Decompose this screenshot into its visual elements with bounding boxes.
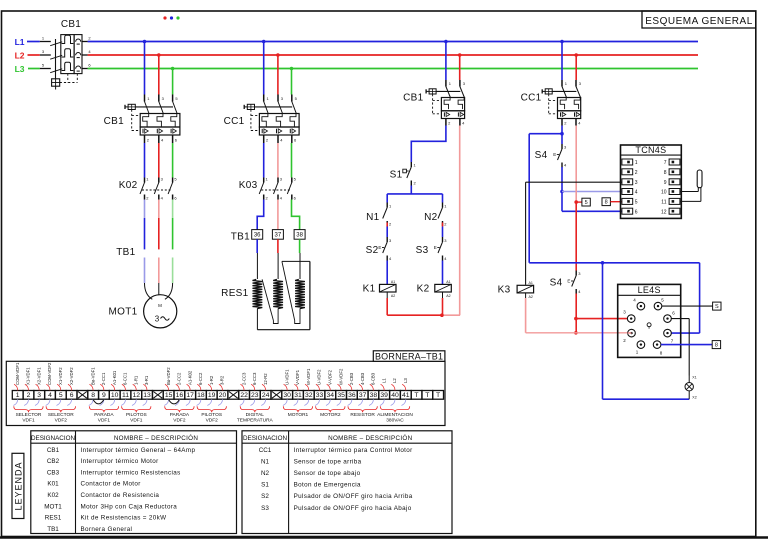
svg-text:SELECTOR: SELECTOR [48,412,74,418]
svg-text:39: 39 [380,392,388,399]
svg-text:8: 8 [664,170,667,176]
svg-text:L1: L1 [15,37,25,47]
svg-text:12: 12 [133,392,141,399]
svg-text:K03: K03 [239,180,258,191]
svg-text:A2: A2 [446,294,450,298]
svg-text:Pulsador de ON/OFF giro hacia: Pulsador de ON/OFF giro hacia Abajo [294,505,412,512]
svg-text:VDF1: VDF1 [22,417,35,423]
svg-text:M: M [158,303,162,308]
svg-text:30: 30 [283,392,291,399]
svg-text:X1-VDF2: X1-VDF2 [58,367,63,385]
svg-text:2: 2 [635,170,638,176]
svg-text:24: 24 [262,392,270,399]
svg-text:CB1: CB1 [47,447,60,454]
svg-text:E: E [567,279,570,284]
svg-text:3-R1: 3-R1 [144,375,149,385]
svg-text:8: 8 [91,392,95,399]
svg-text:10: 10 [111,392,119,399]
svg-text:10: 10 [661,190,667,196]
svg-text:U-VDF1: U-VDF1 [284,369,289,385]
svg-text:Contactor de Motor: Contactor de Motor [81,481,141,488]
svg-text:K02: K02 [47,492,59,499]
svg-text:TB1: TB1 [47,526,59,533]
svg-text:2-CC2: 2-CC2 [177,372,182,385]
svg-text:K2: K2 [417,283,430,294]
svg-text:L1: L1 [381,378,386,383]
svg-text:L3: L3 [403,378,408,383]
svg-text:L3: L3 [15,64,25,74]
svg-text:Contactor de Resistencia: Contactor de Resistencia [81,492,160,499]
svg-text:20: 20 [219,392,227,399]
svg-text:6-CC3: 6-CC3 [252,372,257,385]
svg-text:VDF2: VDF2 [55,417,68,423]
svg-text:N2: N2 [424,212,438,223]
svg-text:6-CB3: 6-CB3 [371,372,376,385]
svg-text:CB2: CB2 [47,458,60,465]
svg-text:37: 37 [359,392,367,399]
svg-text:TCN4S: TCN4S [635,145,666,155]
svg-text:380VAC: 380VAC [386,417,404,423]
svg-text:N1: N1 [366,212,380,223]
svg-text:S3: S3 [416,245,429,256]
svg-text:SELECTOR: SELECTOR [16,412,42,418]
svg-text:4-CB3: 4-CB3 [360,372,365,385]
svg-text:17: 17 [186,392,194,399]
svg-text:9: 9 [102,392,106,399]
svg-text:3: 3 [37,392,41,399]
svg-text:X1: X1 [692,376,696,380]
svg-text:Interruptor térmico para Contr: Interruptor térmico para Control Motor [294,447,413,454]
svg-text:3: 3 [155,315,160,324]
svg-text:A2: A2 [391,294,395,298]
svg-text:11: 11 [122,392,129,399]
svg-text:X1-VDF1: X1-VDF1 [26,367,31,385]
svg-text:T: T [425,392,429,399]
svg-text:DESIGNACION: DESIGNACION [31,435,76,442]
svg-text:5: 5 [59,392,63,399]
svg-text:2-CC1: 2-CC1 [101,372,106,385]
svg-text:L2: L2 [392,378,397,383]
svg-text:Pulsador de ON/OFF giro hacia: Pulsador de ON/OFF giro hacia Arriba [294,493,413,500]
svg-text:U-VDF2: U-VDF2 [317,369,322,385]
svg-text:S2: S2 [261,493,269,500]
svg-text:K01: K01 [47,481,59,488]
svg-text:Boton de Emergencia: Boton de Emergencia [294,482,361,489]
svg-text:MOT1: MOT1 [109,307,138,318]
svg-text:8: 8 [605,200,608,206]
svg-text:CB3: CB3 [47,469,60,476]
svg-text:TEMPERATURA: TEMPERATURA [237,417,274,423]
svg-text:22: 22 [240,392,248,399]
svg-text:15: 15 [165,392,173,399]
svg-text:W-VDF1: W-VDF1 [306,368,311,385]
svg-text:1: 1 [16,392,20,399]
svg-text:A1-K01: A1-K01 [112,370,117,385]
svg-text:2-CB3: 2-CB3 [349,372,354,385]
svg-text:BORNERA–TB1: BORNERA–TB1 [375,351,443,361]
svg-text:5: 5 [635,200,638,206]
svg-text:1-R1: 1-R1 [134,375,139,385]
svg-text:K1: K1 [363,283,376,294]
svg-text:VDF2: VDF2 [173,417,186,423]
svg-text:Bornera General: Bornera General [81,526,133,533]
svg-text:36: 36 [348,392,356,399]
svg-text:A2: A2 [529,295,533,299]
svg-text:COM-VDF1: COM-VDF1 [15,362,20,385]
svg-text:A1: A1 [529,281,533,285]
svg-text:PILOTOS: PILOTOS [126,412,147,418]
svg-text:E: E [553,152,556,157]
svg-text:23: 23 [251,392,259,399]
svg-text:S4: S4 [535,150,548,161]
svg-text:RESISTOR: RESISTOR [350,412,375,418]
svg-text:3-R2: 3-R2 [220,375,225,385]
svg-text:11: 11 [661,200,666,206]
svg-text:6-CC1: 6-CC1 [123,372,128,385]
svg-text:18: 18 [197,392,205,399]
svg-text:N1: N1 [261,458,270,465]
svg-text:CC1: CC1 [259,447,272,454]
svg-text:Kit de Resistencias = 20kW: Kit de Resistencias = 20kW [81,515,167,522]
svg-text:DESIGNACION: DESIGNACION [243,435,288,442]
svg-text:16: 16 [176,392,184,399]
svg-text:COM-VDF2: COM-VDF2 [47,362,52,385]
svg-text:VDF2: VDF2 [206,417,219,423]
svg-text:V-VDF2: V-VDF2 [328,369,333,385]
svg-text:40: 40 [391,392,399,399]
svg-text:2: 2 [27,392,31,399]
svg-text:32: 32 [305,392,313,399]
svg-text:S3: S3 [261,505,269,512]
svg-text:X2-VDF1: X2-VDF1 [37,367,42,385]
svg-text:V-VDF1: V-VDF1 [295,369,300,385]
svg-text:37: 37 [275,233,282,239]
svg-text:36: 36 [254,233,261,239]
svg-text:38: 38 [370,392,378,399]
svg-text:ESQUEMA GENERAL: ESQUEMA GENERAL [645,16,753,27]
svg-text:13: 13 [143,392,151,399]
svg-text:Bo-VDF1: Bo-VDF1 [90,367,95,385]
svg-text:TB1: TB1 [231,232,250,243]
svg-text:4: 4 [48,392,52,399]
svg-text:TB1: TB1 [116,247,135,258]
svg-text:CB1: CB1 [403,93,423,104]
svg-text:S2: S2 [366,245,379,256]
svg-text:A1: A1 [391,280,395,284]
svg-text:MOTOR1: MOTOR1 [288,412,309,418]
svg-text:PILOTOS: PILOTOS [201,412,222,418]
svg-text:1-R2: 1-R2 [209,375,214,385]
svg-text:PARADA: PARADA [170,412,190,418]
svg-text:Bo-VDF2: Bo-VDF2 [166,367,171,385]
svg-text:S1: S1 [390,170,403,181]
svg-text:NOMBRE – DESCRIPCIÓN: NOMBRE – DESCRIPCIÓN [328,433,413,442]
svg-text:CC1: CC1 [521,93,542,104]
svg-text:A1-K02: A1-K02 [187,370,192,385]
svg-text:RES1: RES1 [221,288,248,299]
svg-text:S: S [715,304,719,310]
svg-text:12-R2: 12-R2 [263,373,268,385]
svg-text:4: 4 [635,190,638,196]
svg-text:6: 6 [635,209,638,215]
svg-text:34: 34 [327,392,335,399]
svg-text:K02: K02 [119,180,138,191]
svg-text:CB1: CB1 [104,116,124,127]
svg-text:6: 6 [70,392,74,399]
svg-text:Motor 3Hp con Caja Reductora: Motor 3Hp con Caja Reductora [81,503,178,510]
svg-text:Interruptor térmico Resistenci: Interruptor térmico Resistencias [81,469,181,476]
svg-text:CB1: CB1 [61,19,81,30]
svg-text:RES1: RES1 [45,515,62,522]
svg-text:Sensor de tope abajo: Sensor de tope abajo [294,470,361,477]
svg-text:9: 9 [664,180,667,186]
svg-text:35: 35 [337,392,345,399]
svg-text:ALIMENTACION: ALIMENTACION [377,412,413,418]
svg-text:6-CC2: 6-CC2 [198,372,203,385]
svg-text:2-CC3: 2-CC3 [241,372,246,385]
svg-text:VDF1: VDF1 [98,417,111,423]
svg-text:PARADA: PARADA [94,412,114,418]
svg-text:MOTOR2: MOTOR2 [320,412,341,418]
svg-text:1: 1 [635,160,638,166]
svg-text:E: E [378,245,381,250]
svg-text:31: 31 [294,392,302,399]
svg-text:N2: N2 [261,470,270,477]
svg-text:L2: L2 [15,50,25,60]
svg-text:W-VDF2: W-VDF2 [338,368,343,385]
svg-text:VDF1: VDF1 [130,417,143,423]
svg-text:S4: S4 [550,278,563,289]
svg-text:5: 5 [585,200,588,206]
svg-text:E: E [434,245,437,250]
svg-text:MOT1: MOT1 [44,503,62,510]
svg-text:A1: A1 [446,280,450,284]
svg-text:LE4S: LE4S [638,285,661,295]
svg-text:Interruptor térmico General –: Interruptor térmico General – 64Amp [81,447,196,454]
svg-text:T: T [414,392,418,399]
svg-text:41: 41 [402,392,410,399]
svg-text:3: 3 [635,180,638,186]
svg-text:NOMBRE – DESCRIPCIÓN: NOMBRE – DESCRIPCIÓN [114,433,199,442]
svg-text:19: 19 [208,392,216,399]
svg-text:7: 7 [664,160,667,166]
svg-text:X2-VDF2: X2-VDF2 [69,367,74,385]
svg-text:K3: K3 [498,284,511,295]
svg-text:33: 33 [316,392,324,399]
svg-text:Sensor de tope arriba: Sensor de tope arriba [294,458,362,465]
svg-text:12: 12 [661,209,667,215]
svg-text:CC1: CC1 [224,116,245,127]
svg-text:S1: S1 [261,482,269,489]
svg-text:8: 8 [715,343,718,349]
svg-text:Interruptor térmico Motor: Interruptor térmico Motor [81,458,159,465]
svg-text:38: 38 [296,233,303,239]
svg-text:T: T [436,392,440,399]
svg-text:DIGITAL: DIGITAL [246,412,265,418]
svg-text:LEYENDA: LEYENDA [13,461,23,510]
svg-text:X2: X2 [692,396,696,400]
